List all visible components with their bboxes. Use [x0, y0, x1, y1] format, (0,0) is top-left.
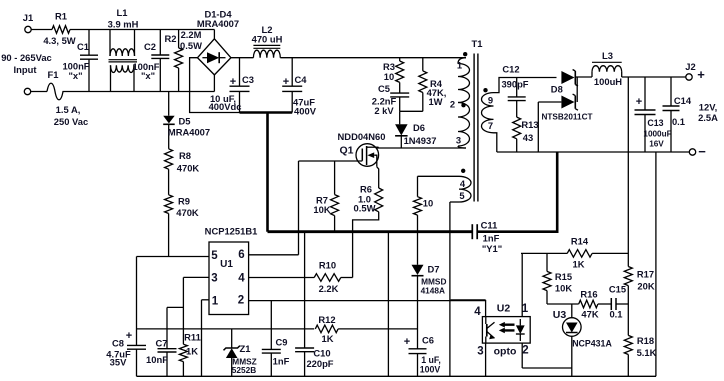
wire VCC line [137, 328, 315, 330]
svg-text:T1: T1 [472, 38, 483, 49]
T1 primary winding [450, 58, 470, 148]
T1 aux winding [459, 176, 471, 202]
wire bridge negative [190, 58, 240, 113]
svg-text:R1: R1 [55, 11, 67, 22]
svg-text:+: + [404, 336, 410, 348]
diode D7 [412, 264, 447, 296]
svg-text:D5: D5 [179, 116, 191, 127]
svg-text:100V: 100V [420, 365, 441, 375]
bridge rectifier D1-D4 [197, 9, 239, 75]
svg-text:opto: opto [494, 346, 517, 358]
svg-text:C4: C4 [295, 74, 308, 85]
svg-text:2: 2 [522, 345, 528, 357]
resistor R7 [313, 161, 338, 232]
resistor R11 [179, 277, 200, 376]
wire bus to gnd tie [387, 232, 389, 377]
wire pin3 [183, 276, 209, 278]
capacitor C2 [132, 30, 169, 92]
svg-text:R14: R14 [571, 236, 589, 247]
svg-text:10: 10 [423, 198, 433, 209]
svg-text:2.2K: 2.2K [319, 283, 339, 294]
capacitor C3 [209, 58, 254, 113]
resistor R15 [543, 253, 572, 304]
svg-text:3: 3 [456, 135, 461, 146]
svg-text:4: 4 [474, 306, 481, 318]
svg-text:35V: 35V [110, 357, 127, 368]
wire VCC node [136, 257, 138, 346]
wire snubber junction [400, 110, 423, 112]
resistor R4 [419, 58, 447, 112]
svg-text:1: 1 [457, 60, 462, 71]
svg-text:R16: R16 [580, 289, 597, 300]
wire drain [377, 146, 466, 149]
capacitor C4 [282, 58, 316, 117]
svg-text:1K: 1K [322, 333, 334, 344]
svg-text:+: + [230, 76, 236, 88]
svg-text:+: + [283, 76, 289, 88]
svg-text:2.2M: 2.2M [181, 29, 202, 40]
svg-text:10K: 10K [313, 204, 330, 215]
svg-text:D6: D6 [413, 122, 425, 133]
svg-text:Q1: Q1 [339, 145, 353, 157]
svg-text:+: + [697, 67, 705, 82]
svg-text:400Vdc: 400Vdc [209, 101, 242, 112]
svg-text:1 uF,: 1 uF, [421, 355, 441, 365]
capacitor C11 [472, 220, 502, 255]
svg-text:1.5 A,: 1.5 A, [56, 104, 81, 115]
resistor R1 [43, 11, 75, 47]
wire bridge bottom to AC rail [213, 75, 215, 92]
svg-text:0.5W: 0.5W [354, 203, 376, 214]
T1 primary polarity dot [463, 52, 467, 56]
label 90-265Vac input [1, 52, 52, 75]
T1 aux polarity dot [461, 169, 465, 173]
transformer T1 label [472, 38, 483, 49]
wire pin2 FB [249, 300, 486, 302]
svg-text:"x": "x" [141, 70, 155, 81]
svg-text:C5: C5 [378, 83, 390, 94]
svg-text:C3: C3 [242, 74, 254, 85]
svg-text:L3: L3 [602, 50, 613, 61]
T1 primary tap dot [461, 103, 465, 107]
svg-text:J2: J2 [685, 61, 695, 72]
svg-text:390pF: 390pF [501, 79, 528, 90]
connector J2 [685, 61, 706, 159]
resistor R10 [314, 260, 352, 295]
fuse F1 [31, 69, 89, 127]
wire secondary gnd drop [655, 152, 657, 376]
resistor R17 [624, 267, 655, 336]
inductor L2 [252, 24, 283, 58]
svg-text:1W: 1W [428, 96, 442, 107]
svg-text:NDD04N60: NDD04N60 [338, 131, 386, 142]
label output 12V 2.5A [698, 102, 718, 124]
wire C11 to secondary gnd thick [477, 152, 557, 232]
IC U1 NCP1251B1 [205, 226, 258, 315]
capacitor C10 [295, 232, 334, 377]
capacitor C14 [663, 77, 692, 152]
wire ref node [547, 303, 579, 305]
resistor R8 [165, 149, 200, 174]
transformer T1 core [474, 54, 478, 202]
svg-text:20K: 20K [637, 281, 654, 292]
inductor L3 [592, 50, 622, 87]
wire gate [299, 160, 363, 162]
svg-text:+: + [126, 330, 132, 342]
wire negative line thick [240, 111, 293, 114]
resistor R2 [165, 29, 203, 92]
T1 secondary polarity dot [483, 88, 487, 92]
wire opto pin2 [522, 343, 572, 368]
svg-text:2.5A: 2.5A [698, 112, 718, 123]
svg-text:5: 5 [211, 250, 218, 262]
svg-text:0.1: 0.1 [672, 116, 685, 127]
svg-text:Input: Input [14, 64, 37, 75]
resistor R3 [383, 58, 404, 93]
diode D5 [163, 92, 210, 149]
svg-text:C2: C2 [144, 41, 156, 52]
svg-text:+: + [636, 96, 642, 108]
svg-text:1nF: 1nF [483, 233, 500, 244]
resistor R14 [521, 236, 628, 270]
wire D7 to C6 [417, 276, 419, 349]
svg-text:1K: 1K [573, 259, 585, 270]
optocoupler U2 [474, 303, 530, 358]
wire DC rail 2 [280, 57, 466, 59]
svg-text:R17: R17 [637, 269, 654, 280]
svg-text:2 kV: 2 kV [374, 105, 394, 116]
svg-text:220pF: 220pF [306, 358, 333, 369]
svg-text:U2: U2 [497, 303, 511, 315]
svg-text:7: 7 [488, 120, 493, 131]
svg-text:3.9 mH: 3.9 mH [108, 19, 139, 30]
wire pin7 to gnd rail [494, 133, 497, 152]
resistor R16 [579, 289, 612, 320]
svg-text:250 Vac: 250 Vac [54, 116, 88, 127]
svg-text:400V: 400V [294, 106, 317, 117]
resistor 10ohm aux [414, 176, 434, 264]
T1 secondary winding [482, 93, 494, 133]
ground bus thick horizontal [268, 230, 473, 233]
svg-text:2: 2 [238, 295, 244, 307]
capacitor C1 [62, 30, 98, 92]
svg-text:D8: D8 [551, 84, 563, 95]
svg-text:F1: F1 [48, 69, 59, 80]
svg-text:1nF: 1nF [273, 356, 290, 367]
wire DC rail [231, 57, 254, 59]
svg-text:470K: 470K [176, 207, 199, 218]
wire 12V rail [622, 76, 686, 78]
svg-text:"Y1": "Y1" [482, 243, 502, 254]
svg-text:0.5W: 0.5W [180, 40, 202, 51]
wire DRV riser [298, 161, 300, 255]
inductor L1 common-mode choke [108, 7, 139, 92]
svg-text:43: 43 [523, 132, 533, 143]
wire R9 to VCC pin [168, 214, 170, 257]
svg-text:6: 6 [238, 249, 244, 261]
wire secondary gnd rail [497, 151, 690, 153]
capacitor C6 [404, 335, 441, 377]
svg-text:3: 3 [477, 346, 483, 358]
svg-text:R2: R2 [165, 33, 177, 44]
svg-text:C10: C10 [313, 348, 330, 359]
svg-text:MRA4007: MRA4007 [168, 126, 210, 137]
svg-text:R9: R9 [178, 196, 190, 207]
svg-text:U3: U3 [553, 309, 567, 321]
svg-text:10K: 10K [555, 283, 572, 294]
capacitor C15 [609, 284, 628, 320]
svg-text:C6: C6 [422, 335, 434, 346]
resistor R6 [353, 167, 383, 278]
svg-text:4.3, 5W: 4.3, 5W [43, 35, 75, 46]
svg-text:C7: C7 [156, 338, 168, 349]
svg-text:470 uH: 470 uH [252, 34, 283, 45]
wire pin5 VCC [137, 256, 210, 258]
svg-text:5: 5 [459, 190, 464, 201]
svg-text:R12: R12 [318, 314, 335, 325]
svg-text:12V,: 12V, [699, 102, 717, 113]
svg-text:J1: J1 [23, 12, 33, 23]
svg-text:1000uF: 1000uF [643, 130, 671, 139]
svg-text:C9: C9 [276, 337, 288, 348]
svg-text:C12: C12 [502, 64, 519, 75]
svg-text:90 - 265Vac: 90 - 265Vac [1, 52, 52, 63]
svg-text:C13: C13 [647, 118, 663, 128]
wire aux pin5 [450, 202, 459, 376]
svg-text:"x": "x" [68, 70, 82, 81]
wire R8 to R9 [168, 169, 170, 195]
svg-text:R15: R15 [555, 271, 572, 282]
diode D6 [395, 111, 436, 148]
svg-text:C11: C11 [481, 220, 498, 231]
svg-text:NCP431A: NCP431A [572, 339, 612, 349]
svg-text:10: 10 [384, 71, 394, 82]
svg-text:U1: U1 [220, 259, 233, 270]
svg-text:0.1: 0.1 [609, 309, 622, 320]
svg-text:1K: 1K [186, 346, 198, 357]
capacitor C12 [501, 64, 528, 101]
resistor R12 [315, 314, 417, 344]
svg-text:C1: C1 [77, 41, 89, 52]
svg-text:2: 2 [450, 99, 455, 110]
wire opto pin1 [521, 253, 523, 316]
wire opto pin3 [485, 343, 487, 376]
svg-text:L1: L1 [117, 7, 128, 18]
svg-text:1: 1 [212, 296, 219, 308]
resistor R13 [513, 101, 539, 152]
wire pin6 DRV [249, 254, 299, 256]
wire AC bottom rail [65, 91, 214, 93]
svg-text:16V: 16V [649, 140, 664, 149]
svg-text:9: 9 [488, 94, 493, 105]
shunt regulator U3 [553, 304, 613, 376]
svg-text:100uH: 100uH [594, 76, 622, 87]
wire AC top rail [70, 29, 214, 31]
capacitor C13 [635, 77, 672, 152]
svg-text:R11: R11 [184, 332, 201, 343]
wire bottom gnd rail [137, 375, 657, 377]
capacitor C5 [372, 83, 409, 116]
svg-text:10nF: 10nF [146, 354, 168, 365]
svg-text:NCP1251B1: NCP1251B1 [205, 226, 258, 237]
svg-text:C15: C15 [609, 284, 626, 295]
capacitor C8 [106, 330, 146, 376]
svg-text:5.1K: 5.1K [637, 347, 657, 358]
svg-text:D7: D7 [428, 264, 440, 275]
capacitor C7 [146, 307, 183, 376]
wire aux pin4 [418, 175, 460, 177]
svg-text:4148A: 4148A [421, 286, 445, 296]
svg-text:C14: C14 [674, 95, 692, 106]
connector J1 [23, 12, 33, 95]
ground bus thick vertical [266, 112, 269, 232]
zener Z1 [224, 329, 257, 376]
svg-text:470K: 470K [177, 163, 200, 174]
wire pin9 to D8 [494, 78, 557, 93]
wire R17 top [627, 77, 629, 267]
capacitor C9 [262, 301, 290, 377]
svg-text:4: 4 [238, 273, 245, 285]
svg-text:C8: C8 [112, 338, 124, 349]
svg-text:R10: R10 [319, 260, 336, 271]
svg-text:5252B: 5252B [232, 365, 256, 375]
wire J1 to R1 [31, 29, 52, 31]
svg-text:4: 4 [460, 178, 466, 189]
svg-text:R13: R13 [521, 119, 538, 130]
transistor Q1 [338, 131, 386, 167]
svg-text:−: − [698, 144, 706, 159]
resistor R18 [624, 335, 656, 376]
wire D8 to L3 [575, 76, 592, 78]
wire pin1 gnd [202, 300, 210, 377]
resistor R9 [165, 195, 199, 218]
svg-text:47K: 47K [581, 309, 598, 320]
svg-text:R8: R8 [179, 150, 191, 161]
wire pin4 CS [249, 277, 315, 279]
svg-text:MRA4007: MRA4007 [197, 18, 239, 29]
svg-text:1N4937: 1N4937 [404, 135, 437, 146]
svg-text:NTSB2011CT: NTSB2011CT [542, 113, 593, 122]
svg-text:R18: R18 [637, 335, 654, 346]
svg-text:Z1: Z1 [240, 343, 251, 354]
svg-text:3: 3 [211, 273, 217, 285]
diode D8 dual schottky [538, 70, 592, 153]
wire opto pin4 [451, 300, 486, 317]
